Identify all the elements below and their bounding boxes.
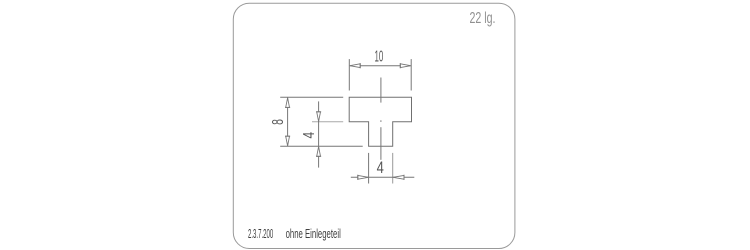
svg-text:10: 10	[375, 48, 384, 65]
svg-text:2.3.7.200: 2.3.7.200	[248, 227, 273, 241]
svg-text:22 lg.: 22 lg.	[470, 10, 496, 27]
svg-text:4: 4	[377, 158, 384, 177]
svg-text:ohne Einlegeteil: ohne Einlegeteil	[286, 227, 341, 241]
svg-text:4: 4	[301, 132, 318, 139]
svg-text:8: 8	[270, 119, 287, 125]
